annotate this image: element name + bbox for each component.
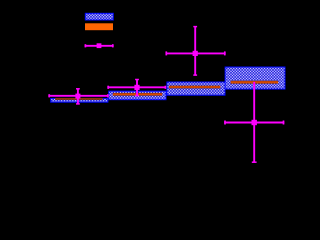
box D (hatched): [225, 67, 285, 89]
box B (hatched): [109, 91, 166, 100]
cross X3: [166, 26, 226, 75]
orange box B: [113, 93, 163, 96]
legend hatched box: [85, 13, 113, 20]
legend marker line: [85, 43, 114, 48]
legend orange box: [85, 23, 113, 30]
orange box C: [169, 86, 221, 89]
box A (hatched): [51, 98, 108, 102]
orange box A: [55, 98, 102, 100]
cross X2: [107, 79, 166, 96]
cross X4: [224, 82, 284, 163]
box C (hatched): [167, 82, 225, 95]
cross X1: [48, 88, 108, 104]
orange box D: [231, 81, 279, 84]
